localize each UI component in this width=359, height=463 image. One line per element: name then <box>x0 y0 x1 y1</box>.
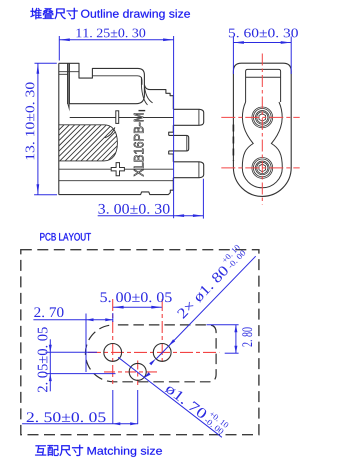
dimension 5.60±0.30 <box>233 37 291 75</box>
front view: shroud window <box>242 69 282 187</box>
front view: socket boss lower <box>252 158 273 179</box>
plus polarity mark <box>111 163 124 176</box>
title: PCB LAYOUT <box>40 233 91 241</box>
side view: model marking text XLB16PB-M <box>134 113 144 176</box>
PCB layout dashed border <box>21 250 259 435</box>
front view: hidden edge dashes <box>232 125 234 162</box>
front view: socket boss upper <box>252 107 273 128</box>
leader 2x ⌀1.80 <box>156 256 256 359</box>
front view: outer body outline <box>233 63 291 196</box>
leader ⌀1.70 <box>118 357 222 437</box>
dimension 2.70 <box>33 313 112 424</box>
front view: cavity outline around sockets <box>242 102 282 188</box>
red centerlines of holes <box>88 299 219 385</box>
dimension 2.80 <box>207 325 239 354</box>
title: outline drawing size (top) <box>30 8 190 20</box>
dimension 11.25±0.30 <box>59 36 173 218</box>
side view: internal lines <box>59 118 174 181</box>
dimension 5.00±0.05 <box>113 306 162 308</box>
front view: red centerlines <box>221 54 299 205</box>
hole bottom ⌀1.70 <box>129 363 146 380</box>
hole right ⌀1.80 <box>153 344 171 362</box>
dimension 3.00±0.30 <box>98 179 204 219</box>
dimension 2.05±0.05 <box>46 339 116 391</box>
minus polarity slot <box>116 111 119 124</box>
title: matching size (bottom) <box>35 445 162 457</box>
PCB footprint outline (dashed stadium) <box>85 325 216 382</box>
hole left ⌀1.80 <box>104 344 122 362</box>
side view: connector body outline <box>59 63 204 194</box>
dimension 13.10±0.30 <box>34 63 57 195</box>
dimension 2.50±0.05 <box>22 390 138 424</box>
